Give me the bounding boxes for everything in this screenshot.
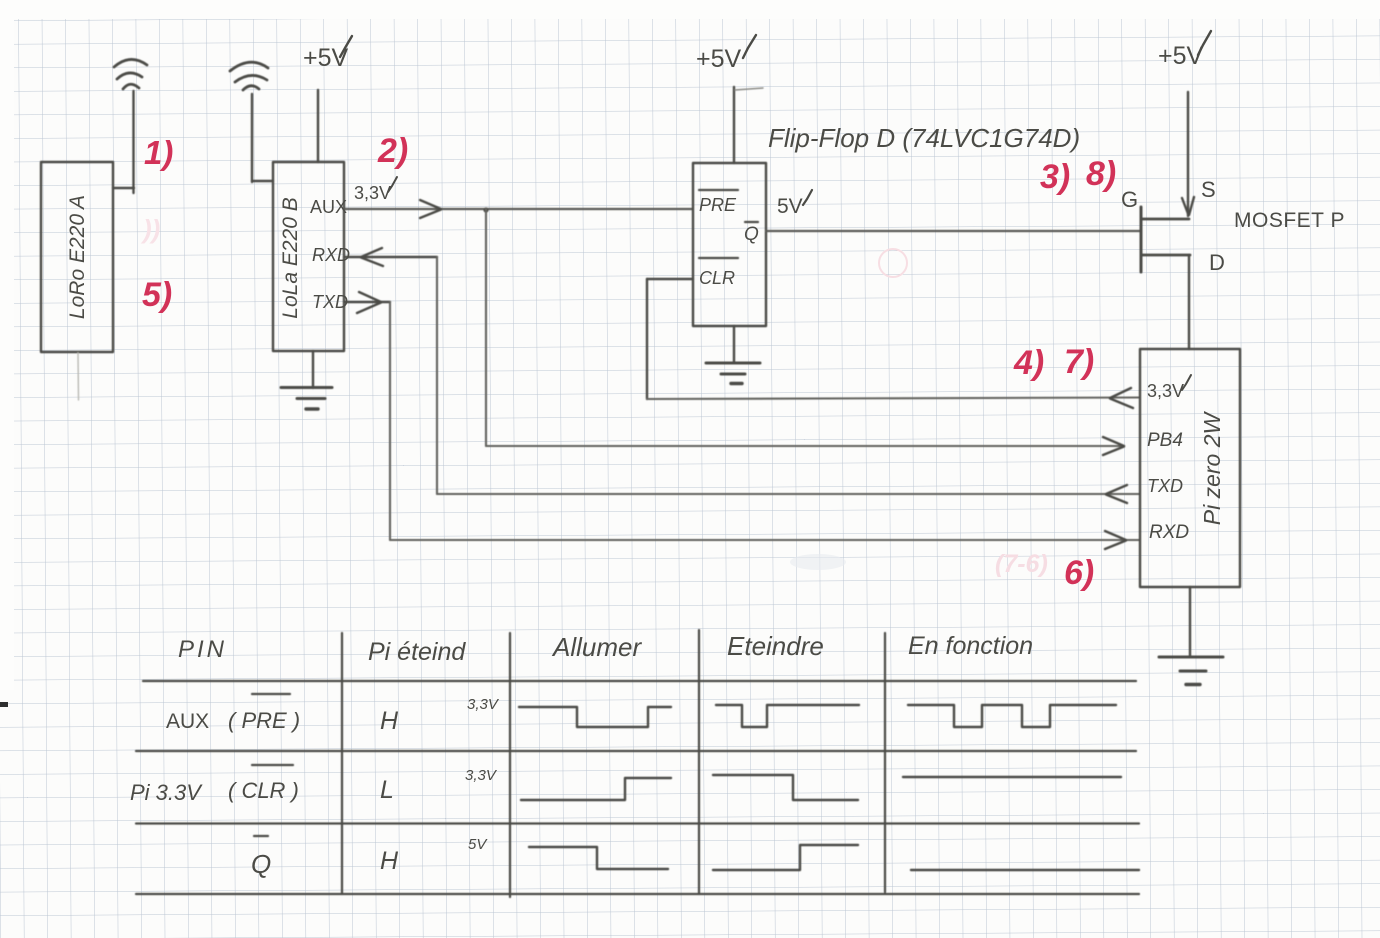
svg-text:6): 6)	[1064, 554, 1094, 592]
wire TXD of B	[344, 301, 390, 303]
faint line under box A	[77, 353, 80, 400]
svg-text:TXD: TXD	[1147, 476, 1183, 496]
Pi zero 2W box	[1140, 349, 1240, 587]
svg-text:1): 1)	[144, 134, 173, 171]
tick over +5V B	[340, 36, 352, 57]
antenna A mast	[132, 91, 134, 193]
svg-text:5V: 5V	[468, 836, 488, 853]
antenna B stub	[252, 180, 273, 182]
wire PB4 vertical	[485, 209, 487, 446]
waveform row1 allumer	[519, 707, 671, 727]
wire Pi TXD horizontal	[437, 493, 1140, 495]
wire Qbar to MOSFET gate	[766, 230, 1140, 232]
grey handwriting texts	[66, 31, 1345, 543]
grey eraser smudge	[790, 554, 846, 570]
svg-text:7): 7)	[1064, 343, 1094, 381]
tick at top of +5V wire	[735, 88, 763, 90]
antenna B mast	[251, 94, 253, 182]
waveform row3 eteindre	[713, 845, 858, 870]
table column line 3	[698, 630, 700, 894]
svg-text:CLR: CLR	[699, 268, 735, 288]
table column line 4	[884, 633, 886, 892]
wire AUX 3.3V from B to PRE	[344, 208, 693, 210]
svg-text:( PRE ): ( PRE )	[228, 708, 300, 733]
svg-text:PRE: PRE	[699, 195, 737, 215]
svg-text:PB4: PB4	[1147, 430, 1183, 451]
antenna A stub	[113, 187, 134, 189]
drain stub	[1142, 254, 1190, 257]
waveform row3 allumer	[529, 847, 668, 869]
svg-text:2): 2)	[377, 132, 408, 170]
waveform row3 en fonction	[911, 869, 1139, 871]
svg-text:3,3V: 3,3V	[467, 696, 500, 713]
svg-text:Pi zero 2W: Pi zero 2W	[1199, 410, 1225, 525]
wire 3.3V to Pi	[647, 398, 1140, 400]
wire PB4 to Pi	[486, 445, 1124, 447]
waveforms	[519, 705, 1139, 870]
waveform row1 eteindre	[716, 705, 859, 727]
table bottom line	[136, 893, 1139, 895]
svg-text:AUX: AUX	[166, 710, 209, 733]
red annotations	[140, 132, 1116, 592]
wire Pi RXD horizontal	[390, 539, 1140, 541]
svg-text:5): 5)	[142, 276, 172, 314]
svg-text:3,3V: 3,3V	[465, 767, 498, 784]
faint red smudge circle	[879, 249, 907, 277]
waveform row2 en fonction	[903, 776, 1121, 778]
Q overline row3	[254, 835, 268, 837]
svg-text:Q: Q	[744, 224, 759, 245]
wire RXD-B vertical	[436, 257, 438, 494]
tick after 3,3V Pi	[1182, 375, 1191, 390]
ground under Pi	[1189, 587, 1191, 657]
CLR overline	[699, 257, 738, 259]
svg-text:( CLR ): ( CLR )	[228, 778, 299, 803]
table column line 1	[341, 633, 343, 894]
svg-text:Eteindre: Eteindre	[727, 631, 824, 661]
wire CLR down	[646, 279, 648, 399]
svg-text:AUX: AUX	[310, 197, 347, 217]
svg-text:5V: 5V	[777, 195, 803, 218]
antenna B arcs	[243, 86, 259, 90]
PRE overline row1	[252, 693, 290, 695]
svg-text:Q: Q	[251, 849, 271, 879]
wire TXD-B vertical	[389, 302, 391, 540]
svg-text:LoLa E220 B: LoLa E220 B	[279, 197, 302, 318]
svg-text:+5V: +5V	[696, 45, 742, 73]
svg-text:3,3V: 3,3V	[354, 183, 391, 203]
svg-text:8): 8)	[1086, 155, 1116, 193]
tick over +5V MOSFET	[1198, 31, 1211, 55]
PRE overline	[699, 189, 738, 191]
tick after 5V	[803, 190, 812, 205]
ground under flip-flop	[733, 326, 735, 362]
table row line 2	[136, 750, 1136, 752]
svg-text:Flip-Flop D (74LVC1G74D): Flip-Flop D (74LVC1G74D)	[768, 123, 1080, 153]
CLR overline row2	[252, 764, 293, 766]
antenna A arcs	[123, 84, 139, 89]
svg-text:(7-6): (7-6)	[995, 550, 1048, 578]
table row line 3	[136, 822, 1139, 824]
+5V wire to source	[1187, 92, 1189, 216]
flip-flop U1 box	[693, 163, 766, 326]
source stub	[1142, 218, 1189, 221]
table row line 1	[143, 680, 1136, 682]
svg-text:PIN: PIN	[178, 636, 227, 663]
waveform row1 en fonction	[908, 705, 1116, 727]
wire drain down to Pi	[1188, 255, 1190, 349]
svg-text:RXD: RXD	[312, 245, 350, 265]
waveform row2 allumer	[521, 778, 671, 800]
tick after 3,3V	[388, 177, 397, 192]
svg-text:+5V: +5V	[303, 44, 349, 72]
top margin band	[0, 0, 1380, 19]
svg-text:4): 4)	[1013, 344, 1044, 382]
tick over +5V flip-flop	[743, 35, 756, 58]
svg-text:3,3V: 3,3V	[1147, 381, 1184, 401]
svg-text:H: H	[380, 707, 399, 735]
svg-text:RXD: RXD	[1149, 522, 1189, 543]
svg-text:LoRo E220 A: LoRo E220 A	[66, 195, 89, 319]
arrow on AUX wire	[420, 200, 441, 218]
svg-text:Pi éteind: Pi éteind	[368, 638, 466, 666]
arrow into RXD B	[361, 248, 383, 266]
arrow into PB4	[1103, 437, 1124, 455]
wire RXD of B	[344, 256, 437, 258]
left margin band	[0, 0, 14, 690]
svg-text:S: S	[1201, 177, 1216, 202]
svg-text:Allumer: Allumer	[551, 632, 642, 662]
svg-text:MOSFET P: MOSFET P	[1234, 209, 1345, 232]
ground under B	[312, 351, 314, 388]
table texts	[130, 631, 1033, 879]
table column line 2	[509, 633, 511, 897]
arrow down on source wire	[1182, 197, 1194, 215]
gate bar	[1140, 207, 1143, 272]
arrow out of Pi TXD	[1106, 485, 1127, 503]
svg-text:)): ))	[140, 214, 160, 244]
svg-text:Pi 3.3V: Pi 3.3V	[130, 780, 203, 805]
arrow into Pi RXD	[1105, 531, 1126, 549]
Qbar overline	[745, 221, 758, 223]
+5V wire into flip-flop	[733, 87, 735, 163]
svg-text:H: H	[380, 847, 399, 875]
svg-text:3): 3)	[1040, 158, 1070, 196]
arrow out of TXD B	[357, 292, 381, 313]
svg-text:+5V: +5V	[1158, 42, 1204, 70]
LoLa E220 B box	[273, 162, 344, 351]
svg-text:D: D	[1209, 250, 1225, 275]
svg-text:L: L	[380, 776, 394, 804]
arrow out of Pi 3.3V	[1110, 388, 1133, 408]
svg-text:En fonction: En fonction	[908, 632, 1033, 660]
junction node PB4 branch	[483, 207, 488, 212]
wire CLR left	[647, 278, 693, 280]
LoRa E220 A box	[41, 162, 113, 352]
scan dash left edge	[0, 702, 8, 707]
svg-text:TXD: TXD	[312, 292, 348, 312]
svg-text:G: G	[1121, 187, 1138, 212]
waveform row2 eteindre	[713, 775, 858, 800]
+5V wire into B	[317, 90, 319, 162]
table	[136, 630, 1139, 897]
